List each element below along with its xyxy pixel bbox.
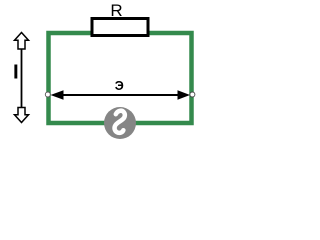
- current direction arrow I (double headed hollow arrow): [15, 33, 29, 123]
- dimension arrow (EMF span): [51, 90, 191, 100]
- AC source G1 (gray circle): [104, 107, 136, 139]
- wire loop (green circuit rectangle): [49, 33, 192, 123]
- node B (right junction dot): [190, 92, 195, 97]
- resistor R1 body: [92, 19, 148, 36]
- svg-text:Э: Э: [115, 79, 124, 93]
- resistor value label R: [110, 1, 122, 20]
- current label I: [13, 60, 19, 83]
- dimension label Э: [115, 79, 124, 93]
- svg-text:I: I: [13, 60, 19, 83]
- node A (left junction dot): [45, 92, 50, 97]
- svg-text:R: R: [110, 1, 122, 20]
